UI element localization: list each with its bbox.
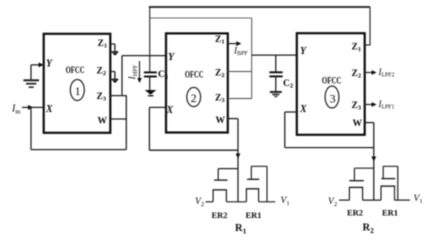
wire: vertical net B (x=251.7) from thin line to Z3 of U2 [251, 18, 253, 99]
svg-text:V1: V1 [281, 196, 290, 207]
wire: vertical feedback up to W and Z3 of U1 [125, 96, 127, 150]
svg-text:Z3: Z3 [352, 101, 362, 112]
ellipse of U3 [325, 86, 339, 108]
transistor ER2 of R1: channel bar [213, 189, 228, 191]
ellipse of U1 [70, 80, 84, 101]
resistor R1: rail V2 side [206, 201, 214, 203]
ellipse of U2 [187, 87, 201, 106]
transistor ER1 of R2: channel bar [381, 185, 396, 187]
capacitor C2 plates [269, 71, 282, 73]
arrowhead I_in into X of U1 [28, 105, 33, 110]
svg-text:IHPF: IHPF [128, 64, 139, 80]
wire: Z3 of U2 to net B [228, 98, 252, 100]
ground at C2 [270, 91, 282, 93]
arrowhead I_LPF1 out of Z3 of U3 [372, 102, 377, 107]
wire: bottom feedback of U1 [31, 149, 126, 151]
svg-text:Y: Y [168, 52, 175, 63]
wire: X of U3 feedback down [284, 112, 286, 148]
wire: X of U3 stub [285, 111, 297, 113]
wire: vertical node A (x=149.7) from top lines down to C1 [149, 7, 151, 72]
wire: C2 bottom lead [275, 77, 277, 91]
arrowhead I_BPF out of Z1 of U2 [236, 41, 241, 46]
wire: Z1 stub of U3 [364, 44, 370, 46]
arrowhead on W of U3 wire into R2 [371, 157, 376, 162]
transistor ER2 of R2: gate bar [349, 180, 364, 182]
resistor R1: rail middle [226, 201, 246, 203]
svg-text:OFCC: OFCC [66, 66, 85, 76]
wire: gate of ER1(R2) over to V1 rail [383, 166, 398, 200]
svg-text:R2: R2 [363, 223, 375, 236]
wire: W of U3 stub [365, 122, 374, 124]
capacitor C1 plates [144, 71, 157, 73]
ground at Z2 of U1 [112, 79, 119, 81]
wire: gate of ER2(R1) to center node [218, 169, 238, 181]
wire: second top line node A to net B [149, 17, 252, 19]
arrowhead on W of U2 wire into R1 [236, 154, 241, 159]
svg-text:1: 1 [75, 84, 81, 98]
svg-text:W: W [353, 119, 363, 129]
svg-text:ILPF2: ILPF2 [378, 67, 395, 79]
transistor ER1 of R1: gate bar [247, 178, 259, 180]
resistor R2: rail V2 side [339, 199, 349, 201]
svg-text:Y: Y [300, 46, 307, 57]
svg-text:V2: V2 [195, 197, 204, 208]
wire: W of U2 down to R1 center [237, 119, 239, 202]
svg-text:ILPF1: ILPF1 [378, 99, 395, 111]
svg-text:Y: Y [46, 59, 53, 70]
op-amp U1 OFCC 1 box [44, 34, 111, 133]
svg-text:C2: C2 [283, 79, 293, 90]
wire: Z1 of U2 output stub [228, 43, 239, 45]
wire: W of U3 down to R2 center [373, 123, 375, 201]
svg-text:ER2: ER2 [212, 210, 228, 220]
transistor ER2 of R1: source/drain legs [213, 190, 226, 202]
transistor ER1 of R1: source/drain legs [246, 189, 258, 202]
svg-text:X: X [299, 104, 307, 115]
wire: X of U2 to feedback [149, 106, 166, 108]
wire: ground to Y of U1 [31, 65, 44, 80]
wire: W of U2 stub [228, 118, 238, 120]
svg-text:Z1: Z1 [352, 43, 362, 54]
transistor ER2 of R2: channel bar [349, 186, 363, 188]
svg-text:Z3: Z3 [215, 94, 225, 105]
wire: Z2 of U2 to net B [228, 71, 252, 73]
arrowhead into Y of U1 [39, 62, 44, 67]
wire: input to X of U1 [22, 106, 44, 108]
svg-text:X: X [166, 105, 174, 116]
ground at Y of U1 [23, 79, 39, 81]
svg-text:ER1: ER1 [246, 210, 262, 220]
wire: gate of ER2(R2) to center node [354, 168, 374, 181]
wire: Z3 of U3 output stub [365, 104, 374, 106]
wire: X of U3 feedback bottom to R2 [285, 147, 374, 149]
op-amp U2 OFCC 2 box [166, 33, 228, 132]
transistor ER2 of R1: gate bar [214, 179, 227, 181]
svg-text:Z1: Z1 [215, 35, 225, 46]
svg-text:OFCC: OFCC [322, 77, 342, 87]
wire: Z3 stub of U1 [110, 95, 126, 97]
wire: W stub of U1 [110, 118, 126, 120]
wire: vertical from top thick line down to Z1 of U3 [369, 7, 371, 45]
svg-text:Iin: Iin [11, 104, 21, 116]
wire: node A to Y of U2 [122, 55, 166, 57]
svg-text:W: W [98, 117, 108, 127]
wire: C2 top lead junction [275, 55, 277, 72]
svg-text:V1: V1 [414, 194, 423, 205]
svg-text:ER2: ER2 [347, 208, 363, 218]
svg-text:2: 2 [191, 91, 197, 105]
wire: X of U2 feedback down [148, 107, 150, 150]
wire: Z2 stub of U1 to ground [110, 72, 115, 79]
svg-text:IBPF: IBPF [233, 45, 248, 57]
ground at Z1 of U1 [112, 51, 119, 53]
svg-text:W: W [216, 116, 226, 126]
wire: Z1 stub of U1 to ground [110, 44, 115, 51]
wire: vertical Z3 of U1 up to Y2 wire [121, 56, 123, 96]
svg-text:V2: V2 [328, 197, 337, 208]
wire: C1 bottom lead [149, 77, 151, 90]
transistor ER1 of R2: source/drain legs [381, 186, 395, 200]
svg-text:Z2: Z2 [215, 69, 225, 80]
svg-text:Z3: Z3 [97, 92, 107, 103]
op-amp U3 OFCC 3 box [297, 33, 365, 135]
svg-text:3: 3 [330, 92, 336, 106]
resistor R1: rail V1 side [259, 201, 276, 203]
resistor R2: rail V1 side [395, 199, 411, 201]
wire: net B to Y of U3 [252, 54, 297, 56]
svg-text:ER1: ER1 [382, 208, 398, 218]
svg-text:Z2: Z2 [352, 69, 362, 80]
svg-text:Z1: Z1 [98, 39, 108, 50]
wire: gate of ER1(R1) over to V1 rail [251, 166, 267, 202]
transistor ER1 of R1: channel bar [246, 188, 259, 190]
wire: X of U2 feedback bottom to R1 [149, 149, 238, 151]
resistor R2: rail middle [363, 199, 381, 201]
wire: Z2 of U3 output stub [365, 72, 374, 74]
ground at C1 [145, 90, 157, 95]
svg-text:Z2: Z2 [97, 67, 107, 78]
current arrow I_HPF through C1 [139, 61, 141, 80]
arrowhead I_LPF2 out of Z2 of U3 [372, 70, 377, 75]
transistor ER2 of R2: source/drain legs [349, 187, 362, 200]
svg-text:X: X [45, 104, 53, 115]
svg-text:R1: R1 [235, 223, 247, 236]
wire: top feedback net (thick) node A to Z1 of U3 [149, 6, 370, 8]
svg-text:OFCC: OFCC [185, 71, 204, 81]
transistor ER1 of R2: gate bar [381, 178, 395, 180]
wire: X of U1 down to bottom feedback [30, 107, 32, 149]
